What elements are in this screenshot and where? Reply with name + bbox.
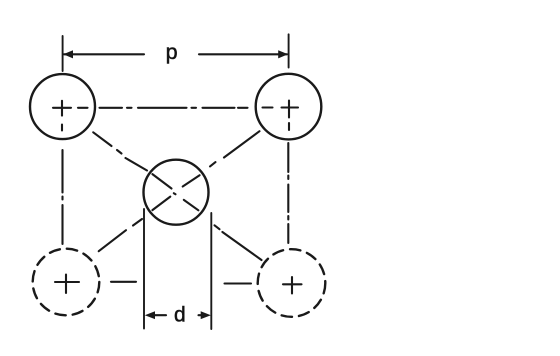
dimension d right leader line — [199, 314, 202, 316]
rivet hole top-left (solid circle) — [30, 74, 95, 139]
rivet hole bottom-left (dashed circle) — [33, 249, 100, 316]
center cross bottom-left — [55, 275, 79, 294]
dimension d left leader line — [153, 314, 166, 316]
dimension p right arrowhead — [278, 50, 288, 58]
dimension p right leader line — [199, 53, 287, 55]
svg-text:d: d — [174, 304, 186, 327]
diagonal centre line top-right to centre — [210, 131, 260, 166]
rivet hole bottom-right (dashed circle) — [258, 249, 326, 317]
dimension d right extension line — [210, 213, 212, 329]
dimension p right extension line — [288, 34, 290, 67]
horizontal centre line between top holes — [78, 106, 273, 108]
rivet hole top-right (solid circle) — [256, 74, 322, 140]
diagonal centre line centre to bottom-right — [215, 225, 262, 260]
center cross top-right — [282, 101, 299, 118]
center cross bottom-right — [283, 277, 302, 294]
crossed rivet marks inside centre hole — [152, 174, 199, 210]
svg-text:p: p — [166, 40, 178, 64]
diagonal centre line top-left to centre — [93, 132, 147, 170]
horizontal centre line between bottom holes — [111, 282, 251, 284]
rivet hole center (solid circle) — [144, 160, 209, 225]
dimension d left arrowhead — [145, 311, 155, 319]
vertical centre line right (below top-right hole) — [287, 123, 290, 243]
dimension d right arrowhead — [201, 311, 211, 319]
dimension p left extension line — [62, 36, 64, 71]
dimension d left extension line — [143, 209, 145, 329]
dimension p left leader line — [64, 53, 144, 55]
vertical centre line left (below top-left hole) — [61, 125, 64, 245]
dimension p left arrowhead — [63, 50, 73, 58]
center cross top-left — [53, 101, 71, 116]
diagonal centre line centre to bottom-left — [99, 219, 142, 251]
